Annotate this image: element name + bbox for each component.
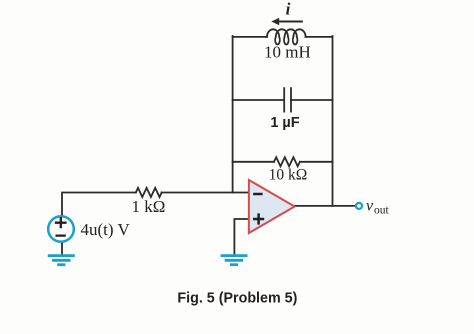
caption Fig. 5 (Problem 5): [177, 291, 297, 307]
output terminal node vout: [356, 203, 362, 209]
wire from 1 kOhm to op-amp inverting input: [162, 192, 249, 194]
svg-text:10 kΩ: 10 kΩ: [269, 167, 308, 184]
svg-text:v: v: [366, 198, 374, 215]
label 10 kOhm: [269, 167, 308, 184]
ground at voltage source: [48, 256, 75, 265]
wire left rail of feedback network: [232, 36, 234, 193]
wire op-amp noninverting input down to ground: [234, 219, 249, 255]
voltage source Vs 4u(t) V: [48, 216, 74, 242]
wire resistor branch left segment: [233, 161, 274, 163]
label i (current): [286, 0, 291, 19]
svg-text:Fig. 5 (Problem 5): Fig. 5 (Problem 5): [177, 291, 297, 307]
label vout: [366, 198, 390, 217]
resistor R 1 kOhm zigzag: [136, 188, 162, 197]
wire top branch right segment: [306, 36, 333, 38]
wire right rail of feedback network: [332, 36, 334, 206]
capacitor C 1 uF plates: [284, 88, 291, 111]
svg-text:1 kΩ: 1 kΩ: [132, 197, 166, 216]
wire capacitor branch left segment: [233, 99, 284, 101]
label 4u(t) V: [81, 220, 131, 239]
wire source bottom to ground: [61, 243, 63, 255]
svg-text:10 mH: 10 mH: [264, 43, 311, 62]
label 10 mH: [264, 43, 311, 62]
op-amp U1: [249, 180, 295, 233]
label 1 uF: [270, 115, 299, 131]
ground at op-amp noninverting input: [221, 256, 248, 265]
wire top branch left segment: [233, 36, 267, 38]
svg-text:out: out: [374, 205, 390, 217]
label 1 kOhm: [132, 197, 166, 216]
wire capacitor branch right segment: [291, 99, 333, 101]
svg-text:i: i: [286, 0, 291, 19]
wire resistor branch right segment: [300, 161, 333, 163]
wire input from source corner to resistor: [62, 193, 136, 216]
wire op-amp output to terminal: [295, 205, 356, 207]
resistor R 10 kOhm zigzag: [274, 157, 300, 166]
svg-text:4u(t) V: 4u(t) V: [81, 220, 131, 239]
svg-text:1 µF: 1 µF: [270, 115, 299, 131]
inductor L 10 mH: [267, 29, 306, 44]
current arrow i: [271, 18, 302, 26]
